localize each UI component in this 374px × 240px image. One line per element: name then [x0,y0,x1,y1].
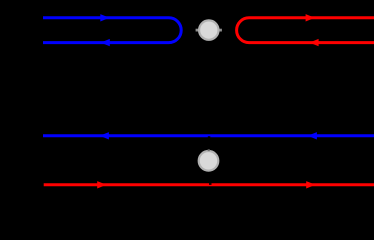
arrow on lower blue line, left (leftward) [100,132,109,139]
arrow on blue contour bottom segment (leftward) [101,39,110,46]
red line (lower, full width, rightward) [44,183,374,186]
blue contour C+ (upper left, hairpin around pole) [43,18,181,43]
red contour C- (upper right, hairpin around pole) [237,18,374,43]
arrow on blue contour top segment (rightward) [100,14,109,21]
arrow on lower red line, right (rightward) [306,181,315,188]
arrow on lower blue line, right (leftward) [308,132,317,139]
pole (lower, gray circle) [199,151,219,171]
tick notch crossing lower red line [209,183,212,185]
pole (upper, gray circle) [196,20,222,39]
arrow on red contour top segment (rightward) [306,14,315,21]
axis notch on lower pole rim [208,149,210,151]
arrow on red contour bottom segment (leftward) [309,39,318,46]
arrow on lower red line, left (rightward) [97,181,106,188]
blue line (lower, full width, leftward) [43,134,374,137]
tick notch crossing lower blue line [208,136,211,138]
